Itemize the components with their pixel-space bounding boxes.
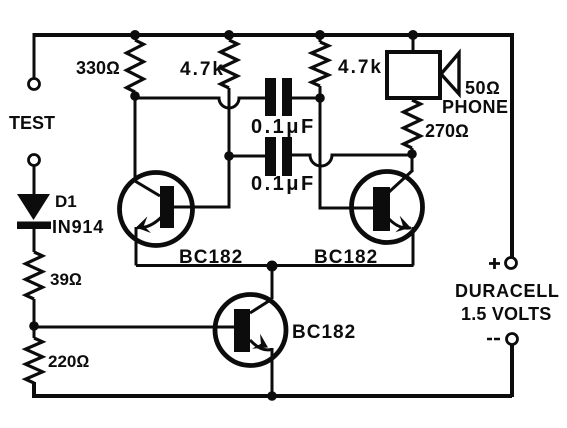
- node Q2 collector / C2 right: [407, 149, 417, 159]
- resistor 270 ohm: [404, 100, 421, 148]
- transistor Q1 BC182: [120, 173, 193, 246]
- wire battery - to bottom rail: [510, 345, 514, 397]
- wire emitter bus: [136, 264, 414, 267]
- resistor R2 4.7k: [221, 35, 238, 88]
- svg-text:4.7k: 4.7k: [338, 57, 383, 78]
- label +: [489, 258, 500, 269]
- node C2 left / Q1 base: [224, 151, 234, 161]
- label BC182 Q2: [314, 247, 378, 268]
- label TEST: [9, 113, 55, 133]
- label DURACELL: [455, 281, 560, 301]
- wire phone to 270 ohm: [412, 98, 415, 100]
- terminal TEST upper: [29, 79, 40, 90]
- label 4.7k right: [338, 57, 383, 78]
- wire Q1 emitter to bus: [135, 227, 138, 266]
- node C1 right / R3 bottom: [315, 93, 325, 103]
- wire C2 right with hop to Q2 collector node: [292, 155, 412, 166]
- capacitor C1 0.1uF: [265, 78, 292, 116]
- node emitter bus / Q3 collector: [267, 261, 278, 272]
- label 330 ohm: [76, 58, 120, 78]
- resistor 39 ohm: [26, 252, 43, 299]
- transistor Q3 BC182: [215, 295, 286, 366]
- terminal battery +: [506, 258, 517, 269]
- terminal TEST lower: [29, 155, 40, 166]
- wire junction to Q3 base: [34, 326, 237, 329]
- wire TEST terminal drop: [33, 33, 36, 78]
- svg-text:4.7k: 4.7k: [180, 59, 225, 80]
- wire terminal to diode: [33, 166, 36, 194]
- node R3 top: [315, 30, 325, 40]
- wire bottom rail: [34, 382, 512, 396]
- svg-text:50Ω: 50Ω: [465, 78, 500, 98]
- label IN914: [52, 217, 104, 237]
- wire Q1 collector: [135, 92, 160, 196]
- wire C2 left: [229, 155, 265, 158]
- wire Q2 emitter to bus: [412, 227, 415, 266]
- diode D1: [17, 194, 51, 229]
- svg-text:PHONE: PHONE: [442, 97, 509, 117]
- wire C1 left with hop over R2 lead: [135, 98, 265, 108]
- svg-text:39Ω: 39Ω: [50, 270, 82, 289]
- svg-text:BC182: BC182: [314, 247, 378, 268]
- svg-text:220Ω: 220Ω: [48, 352, 89, 371]
- label C1 0.1uF: [251, 116, 316, 138]
- svg-text:330Ω: 330Ω: [76, 58, 120, 78]
- wire Q1 base: [174, 156, 229, 207]
- resistor R1 330 ohm: [127, 35, 144, 92]
- wire Q2 collector to phone node: [411, 153, 414, 171]
- label 270 ohm: [425, 121, 469, 141]
- speaker phone 50 ohm: [387, 52, 459, 98]
- resistor R3 4.7k: [312, 35, 329, 86]
- label 4.7k left: [180, 59, 225, 80]
- wire phone top lead: [412, 35, 415, 52]
- wire Q3 collector to bus: [271, 266, 274, 300]
- label 1.5 VOLTS: [461, 304, 552, 324]
- terminal battery -: [507, 334, 518, 345]
- node junction 39/220/Q3 base: [29, 321, 39, 331]
- wire R3 node to Q2 base: [320, 98, 373, 208]
- wire R3 lead down: [319, 86, 322, 98]
- wire C1 right: [292, 97, 320, 100]
- svg-text:DURACELL: DURACELL: [455, 281, 560, 301]
- capacitor C2 0.1uF: [265, 137, 292, 176]
- wire top supply rail: [34, 33, 512, 37]
- node phone top: [408, 30, 418, 40]
- wire Q3 emitter to bottom rail: [271, 348, 274, 396]
- wire right rail to battery +: [510, 33, 514, 258]
- node R1 bottom / Q1 collector: [130, 91, 140, 101]
- label PHONE: [442, 97, 509, 117]
- svg-text:270Ω: 270Ω: [425, 121, 469, 141]
- svg-text:1.5 VOLTS: 1.5 VOLTS: [461, 304, 552, 324]
- transistor Q2 BC182: [352, 170, 423, 243]
- wire diode to 39 ohm: [33, 229, 36, 252]
- label minus: [487, 338, 500, 341]
- node Q3 emitter on bottom rail: [267, 391, 277, 401]
- node R2 top: [224, 30, 234, 40]
- wire R2 lead down to C2 node: [228, 88, 231, 156]
- label 50 ohm: [465, 78, 500, 98]
- wire 39 ohm to 220 ohm: [33, 299, 36, 338]
- svg-text:IN914: IN914: [52, 217, 104, 237]
- svg-text:TEST: TEST: [9, 113, 55, 133]
- svg-text:BC182: BC182: [292, 322, 356, 343]
- svg-text:D1: D1: [55, 192, 77, 211]
- label BC182 Q3: [292, 322, 356, 343]
- svg-text:0.1μF: 0.1μF: [251, 173, 316, 195]
- resistor 220 ohm: [26, 338, 43, 383]
- label 220 ohm: [48, 352, 89, 371]
- label 39 ohm: [50, 270, 82, 289]
- label D1: [55, 192, 77, 211]
- label C2 0.1uF: [251, 173, 316, 195]
- wire 270 ohm bottom lead: [411, 148, 414, 155]
- svg-text:0.1μF: 0.1μF: [251, 116, 316, 138]
- label BC182 Q1: [179, 247, 243, 268]
- node R1 top: [130, 30, 140, 40]
